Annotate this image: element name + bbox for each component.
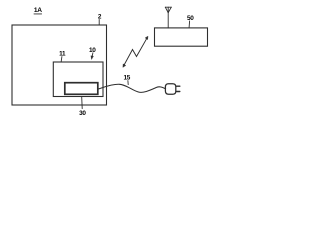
leader line of 50 — [188, 21, 191, 27]
outer rectangle (housing 2) — [12, 25, 107, 105]
box 50 (external unit) — [155, 28, 208, 46]
wireless zigzag arrow — [124, 38, 148, 66]
svg-text:11: 11 — [59, 50, 66, 57]
svg-text:50: 50 — [187, 15, 194, 22]
underline of 1A — [34, 13, 42, 15]
svg-text:15: 15 — [124, 75, 131, 82]
power cord 15 (wavy cable to plug) — [98, 84, 165, 92]
svg-text:30: 30 — [79, 110, 86, 117]
arrow leader of 10 — [91, 53, 94, 57]
svg-text:1A: 1A — [34, 7, 42, 14]
leader line of 30 — [81, 97, 84, 109]
plug prong lower — [176, 91, 179, 93]
box 11 — [53, 62, 103, 97]
leader line of 2 — [98, 19, 100, 24]
antenna — [165, 7, 171, 28]
svg-text:2: 2 — [98, 14, 102, 21]
plug prong upper — [176, 85, 179, 87]
plug body — [165, 84, 175, 94]
leader line of 11 — [60, 57, 63, 62]
small inner rectangle 30 — [65, 83, 98, 95]
leader line of 15 — [127, 81, 129, 85]
